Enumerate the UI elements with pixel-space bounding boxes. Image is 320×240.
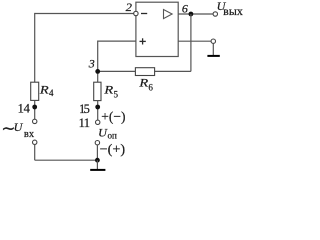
wire: R6 left side to node 3	[98, 70, 136, 72]
svg-text:R: R	[39, 82, 50, 96]
wire: vertical through node 3 down to R5	[97, 41, 99, 83]
node: output junction dot	[189, 12, 194, 17]
svg-text:−(+): −(+)	[100, 142, 126, 158]
wire: R5 bottom through pin 15 dot to pin 11 terminal	[97, 101, 99, 121]
svg-text:R: R	[138, 76, 149, 90]
wire: left vertical from top corner down to R4	[34, 13, 36, 82]
pin 15 dot	[95, 105, 100, 110]
svg-text:11: 11	[79, 116, 90, 130]
op-amp U1 gain triangle	[164, 10, 173, 19]
ground symbol right	[212, 43, 214, 55]
terminal circle input source	[33, 140, 37, 144]
svg-text:R: R	[103, 83, 114, 97]
pin 2 terminal circle on op-amp input	[134, 11, 138, 15]
wire: inverting input horizontal from left rail to pin 2	[35, 13, 134, 15]
svg-text:вых: вых	[223, 6, 243, 18]
svg-text:+(−): +(−)	[101, 109, 125, 125]
wire: feedback horizontal into R6	[155, 70, 191, 72]
pin 14 dot	[32, 105, 37, 110]
wire: feedback vertical from output junction down	[190, 14, 192, 71]
svg-text:4: 4	[49, 88, 54, 98]
op-amp U1 body	[136, 2, 178, 56]
wire: output from pin 6 to Uout terminal	[178, 13, 213, 15]
terminal circle pin 14	[33, 119, 37, 123]
terminal circle reference source	[95, 141, 99, 145]
node 3 junction dot	[95, 69, 100, 74]
resistor R4 body	[31, 82, 39, 100]
wire: reference source down to bottom junction	[96, 145, 98, 160]
wire: R4 bottom through pin 14 dot to terminal	[34, 100, 36, 119]
ground symbol bottom	[96, 160, 98, 169]
resistor R5 body	[94, 82, 101, 100]
terminal circle at ground	[211, 39, 215, 43]
svg-text:вх: вх	[24, 128, 35, 140]
terminal circle pin 11	[96, 120, 100, 124]
svg-text:6: 6	[148, 82, 153, 92]
svg-text:U: U	[14, 120, 24, 134]
svg-text:15: 15	[79, 102, 90, 116]
wire: non-inverting input horizontal to op-amp	[98, 40, 136, 42]
op-amp minus input sign	[141, 13, 147, 15]
svg-text:6: 6	[182, 1, 188, 15]
node: bottom rail junction dot	[95, 158, 100, 163]
resistor R6 body	[135, 68, 154, 76]
svg-text:3: 3	[88, 57, 95, 71]
terminal circle Uout	[213, 12, 217, 16]
wire: op-amp lower right pin to ground terminal	[178, 40, 211, 42]
svg-text:оп: оп	[108, 131, 118, 141]
svg-text:4: 4	[24, 102, 31, 116]
svg-text:2: 2	[126, 0, 132, 14]
wire: input source down and along bottom rail	[34, 145, 36, 161]
svg-text:5: 5	[114, 89, 119, 99]
op-amp plus input sign	[140, 40, 146, 42]
